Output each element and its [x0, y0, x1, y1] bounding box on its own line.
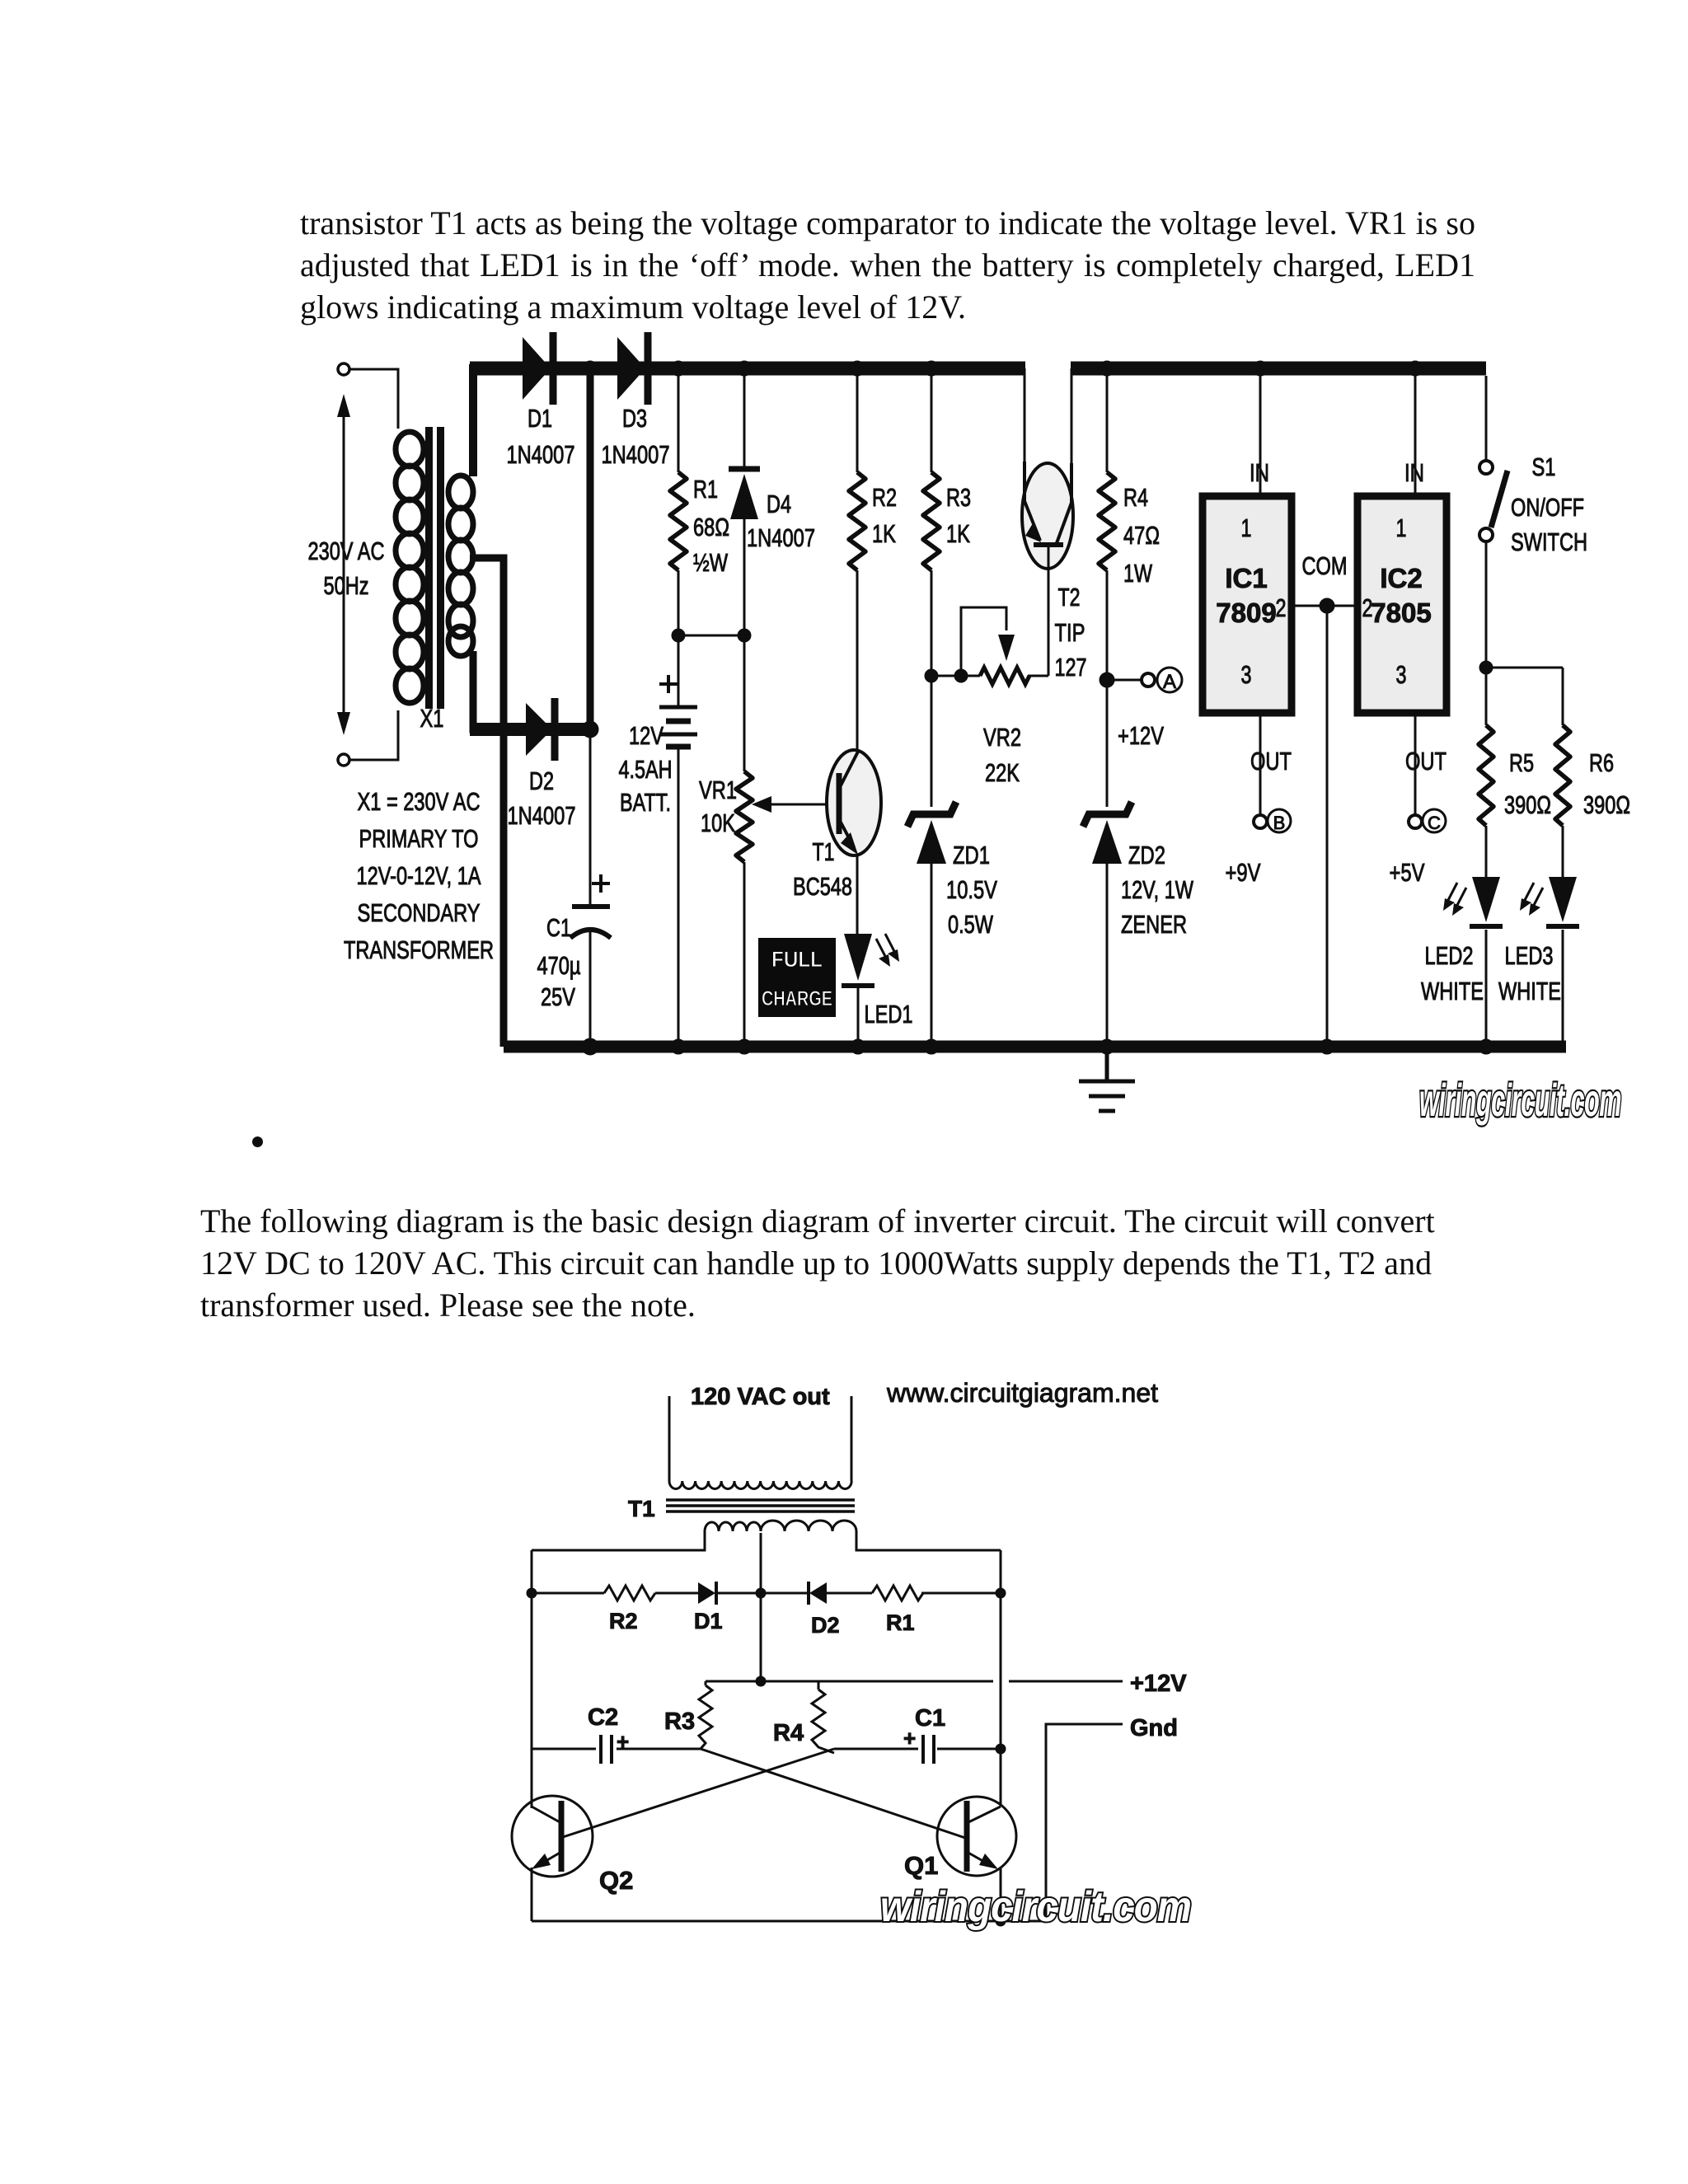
diode D1	[698, 1582, 716, 1605]
svg-text:C: C	[1428, 813, 1441, 833]
potentiometer VR2 22K	[931, 668, 1048, 684]
svg-text:R1: R1	[886, 1610, 915, 1635]
label battery plus	[659, 675, 678, 693]
node: rail junction LED2	[1479, 1039, 1493, 1054]
svg-text:TIP: TIP	[1055, 618, 1085, 647]
wire: cross coupling R3 to Q1 base	[701, 1749, 965, 1838]
wire: COM to ground rail	[1326, 606, 1329, 1047]
wire: left rail upper	[531, 1550, 533, 1808]
label VR2 22K	[983, 723, 1021, 787]
wire: +12V row	[706, 1680, 1123, 1683]
wire: secondary bottom lead down to D2 row	[470, 651, 477, 733]
svg-text:ZD2: ZD2	[1128, 841, 1165, 869]
svg-text:wiringcircuit.com: wiringcircuit.com	[880, 1883, 1191, 1931]
label C1 plus	[903, 1726, 916, 1750]
label COM	[1302, 551, 1348, 580]
svg-text:7805: 7805	[1371, 598, 1431, 628]
wire: centre tap down	[760, 1533, 762, 1681]
label R1	[886, 1610, 915, 1635]
label 12V 4.5AH BATT	[619, 721, 673, 817]
resistor R6 390ohm	[1555, 725, 1570, 826]
svg-text:ZD1: ZD1	[953, 841, 990, 869]
svg-text:ON/OFF: ON/OFF	[1511, 493, 1584, 522]
svg-text:C1: C1	[546, 913, 571, 942]
svg-text:D4: D4	[767, 490, 791, 518]
label D1	[507, 404, 575, 469]
watermark wiringcircuit.com	[1419, 1074, 1621, 1126]
node: rail junction battery	[671, 1039, 686, 1054]
wiper arrow VR1 from T1 base	[752, 796, 837, 813]
diode D1 1N4007	[523, 332, 553, 405]
label www.circuitgiagram.net	[886, 1378, 1158, 1408]
svg-text:2: 2	[1276, 593, 1287, 622]
LED2 emission arrows	[1443, 883, 1466, 916]
svg-text:FULL: FULL	[771, 947, 823, 972]
wire: Gnd riser and stub	[1046, 1724, 1123, 1921]
transistor T2 TIP127	[1022, 462, 1073, 676]
svg-text:S1: S1	[1532, 452, 1556, 481]
svg-text:12V: 12V	[629, 721, 663, 750]
node: rail junction ZD1	[924, 1039, 939, 1054]
transformer X1 primary winding	[396, 432, 424, 703]
node: centre tap +12V junction	[756, 1676, 766, 1686]
node: link right	[738, 629, 751, 642]
node: VR2 wiper junction	[954, 669, 968, 682]
svg-text:T2: T2	[1058, 583, 1081, 612]
svg-text:+9V: +9V	[1226, 858, 1261, 887]
svg-text:390Ω: 390Ω	[1504, 790, 1551, 819]
svg-text:A: A	[1163, 671, 1176, 693]
svg-text:1: 1	[1241, 513, 1252, 542]
svg-text:3: 3	[1241, 660, 1252, 689]
diode D3 1N4007	[617, 332, 648, 405]
label C2	[588, 1704, 618, 1731]
label R6 390ohm	[1583, 748, 1630, 819]
label T2 TIP 127	[1055, 583, 1087, 682]
label LED2 WHITE	[1421, 941, 1484, 1005]
wire: right rail upper	[1000, 1550, 1002, 1807]
svg-text:½W: ½W	[693, 548, 729, 577]
svg-text:10K: 10K	[701, 808, 735, 837]
wire: secondary centre tap to ground rail	[470, 558, 504, 1047]
wire: cross coupling R4 to Q2 base	[563, 1749, 834, 1837]
svg-text:+: +	[617, 1729, 629, 1754]
battery 12V 4.5AH	[659, 707, 697, 747]
wire: R3 / ZD1 column	[931, 368, 933, 1047]
wire: T2 left lead from bus	[1024, 368, 1026, 470]
terminal B +9V	[1226, 809, 1292, 887]
svg-text:VR1: VR1	[699, 776, 737, 804]
label C1 470u 25V	[537, 913, 581, 1011]
label IN IC1	[1250, 458, 1269, 487]
svg-text:IC1: IC1	[1225, 563, 1267, 593]
node: +12V junction	[1100, 673, 1114, 687]
svg-text:230V AC: 230V AC	[308, 537, 385, 565]
wire: top terminal to primary	[350, 369, 398, 429]
label X1 transformer description	[344, 787, 494, 964]
svg-text:1N4007: 1N4007	[508, 801, 576, 830]
wire: IC1 pin1 from bus	[1259, 368, 1262, 493]
node: C1 right rail junction	[996, 1744, 1006, 1754]
transistor T1 BC548	[827, 750, 881, 855]
svg-text:PRIMARY TO: PRIMARY TO	[359, 824, 479, 853]
svg-text:D1: D1	[694, 1609, 723, 1633]
svg-text:D2: D2	[811, 1613, 840, 1638]
ground symbol	[1079, 1052, 1135, 1111]
node: bus junction IC1	[1253, 361, 1268, 376]
switch S1 ON/OFF	[1479, 376, 1507, 668]
label D2	[811, 1613, 840, 1638]
svg-text:1K: 1K	[946, 519, 970, 548]
svg-text:D3: D3	[622, 404, 647, 433]
label C1	[915, 1705, 945, 1732]
wire: R1/battery column	[678, 368, 680, 1047]
node: bus junction IC2	[1408, 361, 1423, 376]
annunciator FULL CHARGE	[758, 938, 836, 1017]
svg-text:47Ω: 47Ω	[1123, 521, 1160, 550]
svg-text:+: +	[903, 1726, 916, 1750]
svg-text:12V-0-12V, 1A: 12V-0-12V, 1A	[357, 861, 481, 890]
LED3 white	[1546, 877, 1579, 926]
wire: junction to R6	[1486, 668, 1563, 725]
svg-text:R4: R4	[1123, 483, 1148, 512]
node: rail junction VR1	[737, 1039, 752, 1054]
wire: thick vertical junction to D2 cathode row	[587, 368, 594, 729]
node: bus junction R3 column	[924, 361, 939, 376]
wire: C1 column	[589, 729, 592, 1047]
wire: top positive bus left segment	[470, 362, 1025, 376]
label VR1 10K	[699, 776, 737, 837]
label R3 1K	[946, 483, 971, 548]
svg-text:R5: R5	[1509, 748, 1534, 777]
node: left rail R2 row	[527, 1588, 537, 1598]
svg-text:T1: T1	[628, 1496, 655, 1521]
node: rail junction COM	[1320, 1039, 1334, 1054]
label T1 BC548	[793, 837, 852, 901]
svg-text:1: 1	[1396, 513, 1407, 542]
node: bus junction R4 column	[1100, 361, 1114, 376]
svg-text:B: B	[1273, 813, 1286, 833]
LED3 emission arrows	[1520, 883, 1543, 916]
svg-text:D1: D1	[527, 404, 552, 433]
wire: right rail lower	[1000, 1868, 1002, 1921]
resistor R1	[872, 1586, 923, 1601]
diode D2	[809, 1582, 827, 1605]
node: COM junction	[1320, 598, 1334, 613]
label +12V	[1118, 721, 1164, 750]
svg-text:BATT.: BATT.	[620, 788, 671, 817]
svg-text:OUT: OUT	[1405, 747, 1447, 776]
svg-text:R2: R2	[872, 483, 897, 512]
svg-text:D2: D2	[529, 766, 554, 795]
transformer T1 core	[666, 1500, 855, 1511]
node: D2 cathode junction	[582, 721, 598, 738]
label Gnd	[1130, 1715, 1178, 1741]
svg-text:22K: 22K	[985, 758, 1020, 787]
svg-text:LED2: LED2	[1425, 941, 1474, 970]
svg-text:OUT: OUT	[1250, 747, 1292, 776]
svg-text:LED3: LED3	[1505, 941, 1554, 970]
svg-text:470µ: 470µ	[537, 951, 581, 980]
wire: R5 column	[1485, 668, 1488, 1047]
wire: R4 / ZD2 column	[1106, 368, 1109, 1047]
node: bus junction D4 column	[737, 361, 752, 376]
capacitor C2	[601, 1735, 612, 1764]
svg-text:+12V: +12V	[1118, 721, 1164, 750]
svg-text:T1: T1	[813, 837, 835, 866]
svg-text:C2: C2	[588, 1704, 618, 1731]
label D2	[508, 766, 576, 830]
node: rail junction LED1	[851, 1039, 865, 1054]
svg-text:WHITE: WHITE	[1498, 977, 1561, 1005]
wire: C1 row	[834, 1748, 1001, 1750]
label D1	[694, 1609, 723, 1633]
svg-text:390Ω: 390Ω	[1583, 790, 1630, 819]
capacitor C1 470u 25V	[570, 907, 611, 938]
wire: COM link IC1 pin2 to IC2 pin2	[1292, 605, 1354, 607]
resistor R3 1K	[923, 472, 940, 570]
wire: primary right lead to right rail	[856, 1531, 1001, 1550]
resistor R2 1K	[849, 472, 865, 570]
transistor Q2	[512, 1796, 593, 1877]
node: link left	[672, 629, 685, 642]
label R2 1K	[872, 483, 897, 548]
wire: IC2 pin1 from bus	[1414, 368, 1417, 493]
transistor Q1	[937, 1797, 1016, 1876]
svg-text:25V: 25V	[541, 982, 575, 1011]
wire: R2 row left	[532, 1592, 1001, 1595]
svg-text:127: 127	[1055, 653, 1087, 682]
terminal A	[1107, 668, 1182, 693]
node: bus junction D1-D3	[583, 361, 598, 376]
svg-text:www.circuitgiagram.net: www.circuitgiagram.net	[886, 1378, 1158, 1408]
svg-text:X1 = 230V AC: X1 = 230V AC	[358, 787, 481, 816]
label R3	[664, 1708, 695, 1735]
node: rail junction ZD2/ground	[1100, 1039, 1114, 1054]
wire: primary left lead to left rail	[532, 1531, 705, 1550]
label R4	[773, 1720, 804, 1746]
svg-text:LED1: LED1	[865, 1000, 913, 1029]
wire: IC2 pin3 output	[1414, 716, 1417, 814]
svg-text:R3: R3	[664, 1708, 695, 1735]
svg-text:10.5V: 10.5V	[946, 875, 997, 904]
wire: bottom rail	[532, 1920, 1046, 1923]
svg-text:R2: R2	[609, 1609, 638, 1633]
svg-text:R4: R4	[773, 1720, 804, 1746]
svg-text:VR2: VR2	[983, 723, 1021, 752]
capacitor C1	[923, 1735, 934, 1764]
svg-text:12V, 1W: 12V, 1W	[1121, 875, 1194, 904]
node: right rail R2 row	[996, 1588, 1006, 1598]
wire: C2 row	[532, 1748, 701, 1750]
label X1	[420, 704, 444, 733]
LED2 white	[1470, 877, 1503, 926]
regulator IC1 7809	[1203, 496, 1292, 713]
label LED1	[865, 1000, 913, 1029]
diode D4 1N4007	[729, 469, 760, 519]
transformer T1 primary winding	[705, 1521, 856, 1531]
VR2 wiper loop and arrow	[961, 607, 1015, 676]
label ZD1 10.5V 0.5W	[946, 841, 997, 939]
resistor R4 47ohm 1W	[1099, 472, 1115, 570]
node: right rail bottom junction	[996, 1916, 1006, 1926]
label IN IC2	[1404, 458, 1424, 487]
label ZD2 12V 1W ZENER	[1121, 841, 1194, 939]
transformer T1 secondary winding	[669, 1481, 851, 1489]
label 120 VAC out	[691, 1384, 830, 1410]
node: VR2 left junction	[925, 669, 938, 682]
node: centre tap R2 row junction	[756, 1588, 766, 1598]
svg-text:IC2: IC2	[1380, 563, 1422, 593]
svg-text:ZENER: ZENER	[1121, 910, 1187, 939]
bullet list marker	[252, 1137, 263, 1147]
wire: bus drop to secondary top	[469, 364, 477, 476]
wire: T1 output lead left	[668, 1396, 671, 1481]
svg-text:50Hz: 50Hz	[324, 571, 369, 600]
wire: R2 / T1 column	[856, 368, 859, 934]
svg-text:TRANSFORMER: TRANSFORMER	[344, 935, 494, 964]
label R5 390ohm	[1504, 748, 1551, 819]
wire: left rail lower	[531, 1868, 533, 1921]
svg-text:1N4007: 1N4007	[747, 523, 815, 552]
svg-text:7809: 7809	[1216, 598, 1276, 628]
svg-text:CHARGE: CHARGE	[762, 987, 832, 1010]
resistor R3	[699, 1681, 712, 1749]
transformer X1 secondary winding	[448, 476, 473, 656]
label R2	[609, 1609, 638, 1633]
resistor R1 68ohm	[670, 472, 687, 570]
node: S1 to R5/R6 junction	[1479, 661, 1493, 674]
svg-text:0.5W: 0.5W	[948, 910, 994, 939]
label 230V AC 50Hz	[308, 537, 385, 600]
resistor R4	[812, 1681, 834, 1753]
svg-text:1N4007: 1N4007	[507, 440, 575, 469]
annotation: AC voltage double arrow	[337, 394, 350, 735]
svg-text:+12V: +12V	[1130, 1671, 1187, 1697]
wire: top positive bus right segment	[1071, 362, 1486, 376]
svg-text:SWITCH: SWITCH	[1511, 527, 1587, 556]
svg-text:Q1: Q1	[904, 1851, 938, 1880]
svg-text:1W: 1W	[1123, 559, 1153, 588]
label C2 plus	[617, 1729, 629, 1754]
label R1 68ohm halfW	[693, 475, 729, 577]
resistor R2	[604, 1586, 655, 1601]
svg-text:BC548: BC548	[793, 872, 852, 901]
wire: LED3 column	[1562, 826, 1564, 1047]
wire: T2 right lead from bus	[1071, 368, 1073, 471]
svg-text:C1: C1	[915, 1705, 945, 1732]
svg-text:3: 3	[1396, 660, 1407, 689]
regulator IC2 7805	[1357, 496, 1447, 713]
svg-text:wiringcircuit.com: wiringcircuit.com	[1419, 1074, 1621, 1126]
svg-text:2: 2	[1362, 593, 1373, 622]
node: bus junction R2 column	[850, 361, 865, 376]
svg-text:68Ω: 68Ω	[693, 513, 729, 541]
svg-text:SECONDARY: SECONDARY	[358, 898, 481, 927]
label D4	[747, 490, 815, 552]
resistor R5 390ohm	[1479, 725, 1493, 826]
wire: D2 anode row	[470, 723, 590, 736]
transformer X1 core	[425, 427, 444, 709]
label C1 polarity plus	[592, 874, 610, 893]
svg-text:+5V: +5V	[1390, 858, 1425, 887]
label OUT IC1	[1250, 747, 1292, 776]
terminal: AC input bottom	[338, 754, 349, 766]
svg-text:R1: R1	[693, 475, 718, 504]
terminal C +5V	[1390, 809, 1447, 887]
node: bus junction R1 column	[671, 361, 686, 376]
svg-text:R3: R3	[946, 483, 971, 512]
svg-text:R6: R6	[1589, 748, 1614, 777]
svg-text:1N4007: 1N4007	[602, 440, 670, 469]
svg-text:COM: COM	[1302, 551, 1348, 580]
potentiometer VR1 10K	[736, 771, 753, 862]
svg-text:120 VAC out: 120 VAC out	[691, 1384, 830, 1410]
label D3	[602, 404, 670, 469]
svg-text:X1: X1	[420, 704, 444, 733]
wire: bottom terminal to primary	[350, 710, 398, 760]
LED1 emission arrows	[876, 934, 899, 967]
label R4 47ohm 1W	[1123, 483, 1160, 588]
svg-text:Gnd: Gnd	[1130, 1715, 1178, 1741]
zener ZD1 10.5V 0.5W	[907, 802, 956, 864]
svg-text:WHITE: WHITE	[1421, 977, 1484, 1005]
terminal: AC input top	[338, 363, 349, 375]
wire: R1 to D4 link	[678, 635, 744, 637]
label Q2	[599, 1866, 633, 1895]
label S1 ON/OFF SWITCH	[1511, 452, 1587, 556]
watermark wiringcircuit.com lower	[880, 1883, 1191, 1931]
label T1	[628, 1496, 655, 1521]
wire: T1 output lead right	[851, 1396, 853, 1481]
label OUT IC2	[1405, 747, 1447, 776]
wire: bottom ground rail	[504, 1041, 1566, 1053]
label +12V	[1130, 1671, 1187, 1697]
wire: IC1 pin3 output	[1259, 716, 1262, 814]
svg-text:Q2: Q2	[599, 1866, 633, 1895]
LED1	[842, 934, 874, 1047]
svg-text:4.5AH: 4.5AH	[619, 755, 673, 784]
zener ZD2 12V 1W	[1083, 802, 1132, 864]
diode D2 1N4007	[526, 698, 555, 761]
label LED3 WHITE	[1498, 941, 1561, 1005]
label Q1	[904, 1851, 938, 1880]
node: rail junction C1	[582, 1038, 598, 1055]
svg-text:1K: 1K	[872, 519, 896, 548]
wire: D4/VR1 column	[743, 368, 746, 1047]
